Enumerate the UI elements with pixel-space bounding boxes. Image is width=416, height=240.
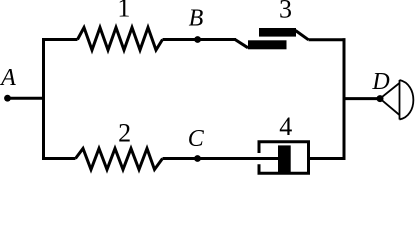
wire left vertical: [42, 38, 45, 160]
wire D stub: [344, 97, 380, 100]
wire A stub: [8, 97, 46, 100]
node D: [377, 95, 384, 102]
svg-text:2: 2: [118, 119, 131, 148]
wire top-right segment: [309, 38, 346, 41]
svg-text:3: 3: [279, 0, 292, 24]
switch S3 lower contact bar: [248, 40, 287, 49]
switch S3 right lead: [296, 31, 309, 40]
resistor R2: [76, 149, 163, 170]
svg-text:B: B: [189, 6, 204, 32]
speaker horn arc: [400, 80, 414, 120]
speaker diaphragm chord: [399, 80, 401, 120]
wire B segment: [163, 38, 237, 41]
wire right vertical: [343, 38, 346, 160]
node C: [194, 155, 201, 162]
switch S3 upper blade bar: [259, 28, 296, 37]
resistor R1: [78, 28, 163, 51]
svg-text:4: 4: [279, 112, 292, 141]
component 4 enclosure: [259, 142, 309, 174]
switch S3 left lead: [235, 40, 248, 48]
wire bottom-left segment: [42, 157, 76, 160]
component 4 plunger bar: [278, 145, 291, 172]
wire top-left segment: [42, 38, 78, 41]
svg-text:A: A: [0, 65, 16, 91]
svg-text:1: 1: [117, 0, 130, 23]
speaker horn triangle: [380, 83, 400, 115]
wire bottom-right segment: [309, 157, 346, 160]
svg-text:D: D: [371, 69, 389, 95]
node A: [4, 95, 11, 102]
node B: [194, 36, 201, 43]
svg-text:C: C: [188, 126, 205, 152]
wire C segment: [163, 157, 279, 160]
